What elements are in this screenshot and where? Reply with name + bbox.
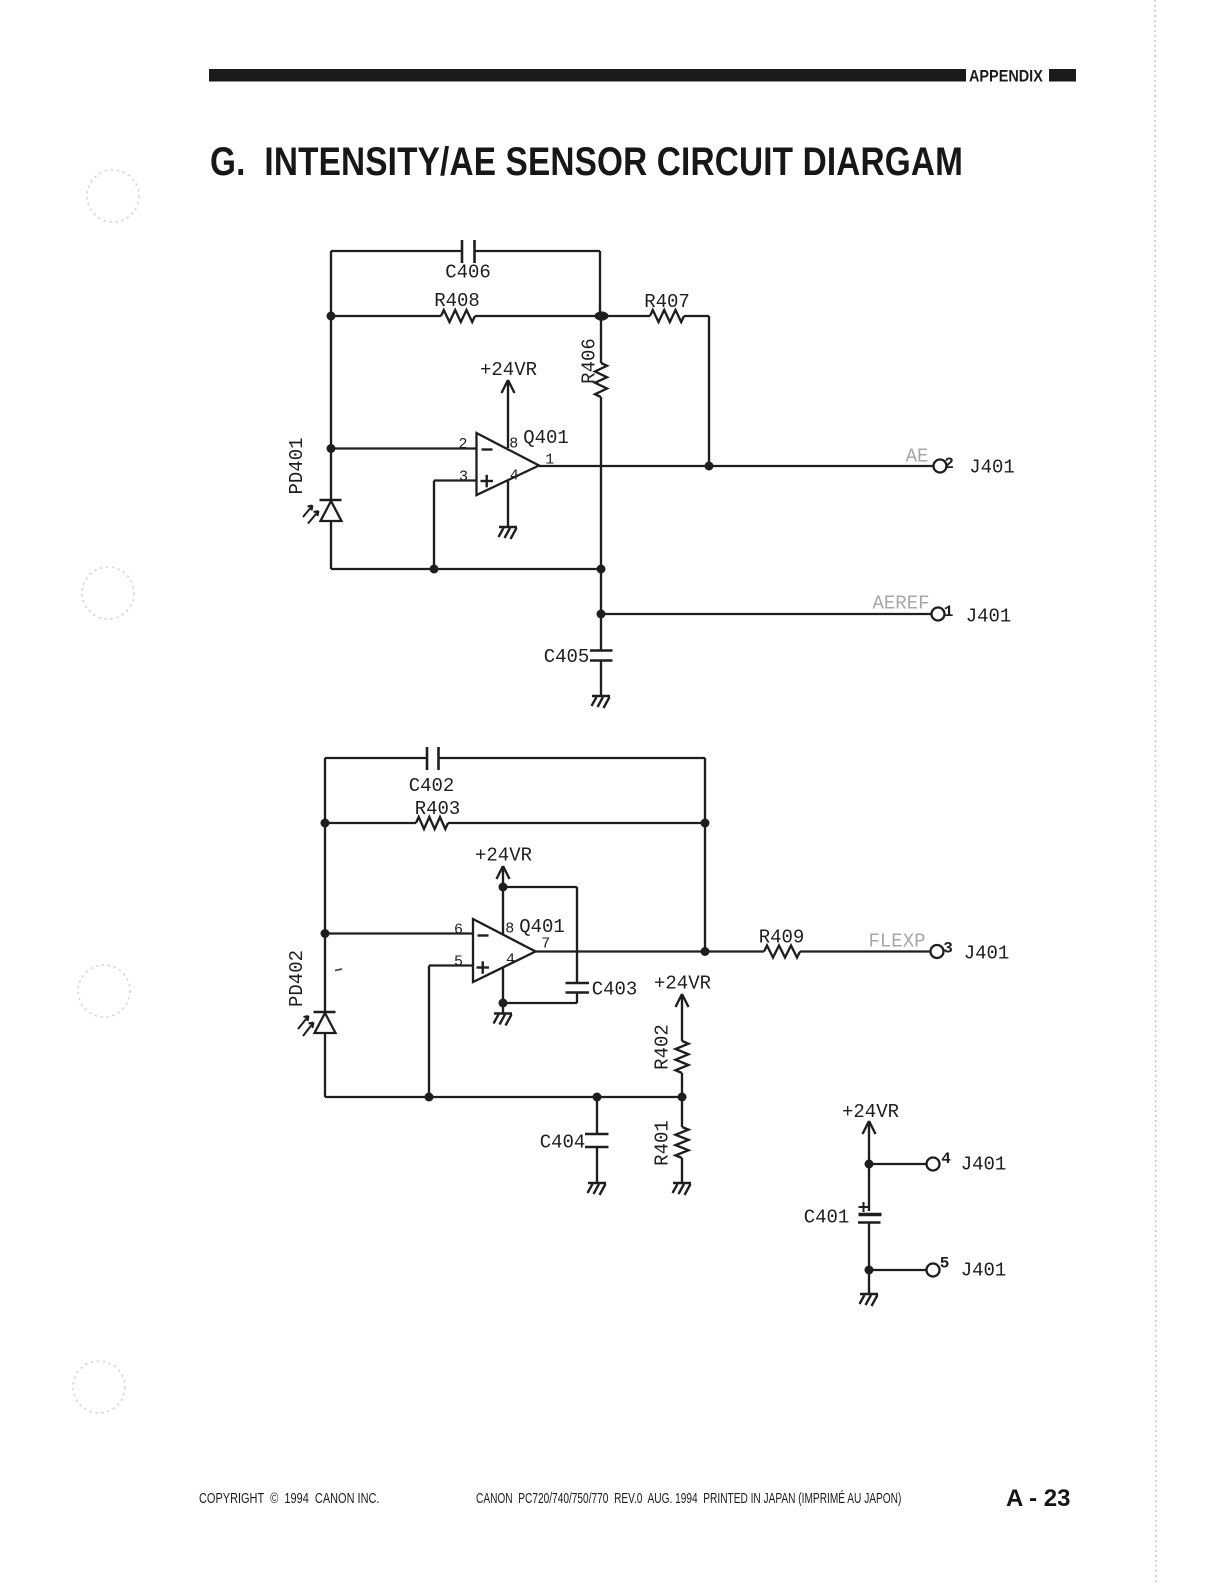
svg-text:C404: C404 xyxy=(540,1132,586,1154)
svg-text:PD402: PD402 xyxy=(286,950,308,1007)
wire U2 output segment xyxy=(536,950,765,952)
resistor R409 xyxy=(764,946,800,958)
svg-text:A - 23: A - 23 xyxy=(1006,1485,1070,1512)
header label APPENDIX xyxy=(969,67,1043,85)
svg-text:J401: J401 xyxy=(969,457,1015,479)
ground R401 xyxy=(673,1183,692,1195)
pin number 8 (U2 supply) xyxy=(505,921,514,938)
svg-text:3: 3 xyxy=(459,469,468,486)
header rule bar xyxy=(209,69,966,82)
wire C401 to pin5 node xyxy=(868,1223,870,1271)
svg-text:R408: R408 xyxy=(434,290,480,312)
label C403 xyxy=(592,979,638,1001)
wire AEREF to terminal xyxy=(601,613,932,615)
power +24VR arrow (U2 pin 8) xyxy=(497,866,510,887)
label R403 xyxy=(415,798,461,820)
svg-text:3: 3 xyxy=(943,940,953,958)
wire R403 left segment xyxy=(325,822,416,824)
ground U2 pin 4 xyxy=(494,1014,513,1026)
wire C403 vertical lower xyxy=(576,993,578,1004)
wire U2 inverting input xyxy=(325,932,473,934)
wire C405 to ground xyxy=(600,661,602,697)
node R403 right junction xyxy=(701,819,710,828)
terminal J401 pin 4 circle xyxy=(927,1158,940,1171)
wire R403 right segment xyxy=(448,822,705,824)
wire U1 inverting input xyxy=(331,447,477,449)
wire C402 right vertical drop xyxy=(704,758,706,823)
svg-text:PD401: PD401 xyxy=(286,437,308,494)
wire R401 to ground xyxy=(681,1158,683,1183)
svg-text:C402: C402 xyxy=(409,775,455,797)
net label AEREF xyxy=(872,593,929,615)
svg-text:2: 2 xyxy=(458,436,467,453)
capacitor C403 xyxy=(566,983,590,993)
pin number 1 (U1 output) xyxy=(545,452,554,469)
wire R407 output drop (right vertical) xyxy=(708,316,710,466)
svg-text:R407: R407 xyxy=(644,291,690,313)
node bottom rail / C404 junction xyxy=(593,1093,602,1102)
footer copyright xyxy=(199,1489,379,1506)
node pin5/bottom rail junction xyxy=(425,1093,434,1102)
wire C406 left feedback segment xyxy=(331,250,461,252)
wire R402 lower segment xyxy=(681,1073,683,1097)
terminal J401 pin 2 circle xyxy=(934,460,947,473)
net label AE xyxy=(906,446,929,468)
svg-text:C405: C405 xyxy=(544,646,590,668)
node R403 left junction xyxy=(321,819,330,828)
terminal J401 pin 5 circle xyxy=(927,1264,940,1277)
node feedback/output junction xyxy=(701,947,710,956)
light arrow 1 into PD401 xyxy=(303,506,313,518)
light arrow 1 into PD402 xyxy=(298,1016,309,1029)
power +24VR arrow (U1 pin 8) xyxy=(502,380,515,448)
svg-text:4: 4 xyxy=(941,1150,951,1168)
wire AEREF tap to C405 xyxy=(600,614,602,650)
svg-text:7: 7 xyxy=(541,936,550,953)
label R401 xyxy=(652,1120,674,1166)
ground C405 xyxy=(592,696,611,708)
svg-text:5: 5 xyxy=(940,1255,950,1273)
wire U1 pin 4 to ground xyxy=(507,481,509,527)
wire C404 to ground xyxy=(596,1147,598,1183)
svg-text:+24VR: +24VR xyxy=(842,1101,899,1123)
pin number 4 (U1 ground) xyxy=(510,468,519,485)
svg-text:4: 4 xyxy=(506,952,515,969)
wire PD401 anode to bottom rail (left vertical lower) xyxy=(330,521,332,569)
node bottom rail / R406 junction xyxy=(597,565,606,574)
capacitor C405 xyxy=(590,651,613,661)
label J401 (pin 1) xyxy=(966,606,1012,628)
label C402 xyxy=(409,775,455,797)
label C406 xyxy=(445,262,491,284)
resistor R408 xyxy=(441,310,475,322)
node pin4 feed junction xyxy=(865,1160,874,1169)
svg-text:J401: J401 xyxy=(961,1260,1007,1282)
svg-text:1: 1 xyxy=(944,603,954,621)
label +24VR (U1 supply) xyxy=(480,359,537,381)
label R407 xyxy=(644,291,690,313)
svg-text:J401: J401 xyxy=(961,1154,1007,1176)
wire R407 right segment xyxy=(684,315,709,317)
svg-text:4: 4 xyxy=(510,468,519,485)
label J401 (pin 2) xyxy=(969,457,1015,479)
pin number 5 (U2 non-inverting) xyxy=(454,954,463,971)
resistor R401 xyxy=(676,1127,689,1158)
wire R406 node down to AEREF tap xyxy=(600,569,602,614)
label PD402 xyxy=(286,950,308,1007)
wire pin5 vertical to bottom rail xyxy=(428,966,430,1098)
wire R408 left segment xyxy=(331,315,441,317)
label +24VR (divider supply) xyxy=(654,973,711,995)
wire pin8 node into op-amp xyxy=(502,887,504,934)
label PD401 xyxy=(286,437,308,494)
capacitor C402 xyxy=(427,747,439,770)
resistor R403 xyxy=(416,817,448,829)
svg-text:FLEXP: FLEXP xyxy=(868,931,925,953)
ground C404 xyxy=(588,1183,607,1195)
svg-text:AEREF: AEREF xyxy=(872,593,929,615)
resistor R407 xyxy=(650,310,684,322)
label Q401 (U2) xyxy=(519,916,565,938)
wire feedback vertical to output xyxy=(704,823,706,952)
wire PD402 anode vertical (left lower) xyxy=(324,1033,326,1097)
pin number 8 (U1 supply) xyxy=(509,436,518,453)
wire C402 left feedback segment xyxy=(325,757,426,759)
capacitor C401 xyxy=(858,1215,882,1223)
node R408/R407/R406 junction xyxy=(595,311,609,320)
svg-text:2: 2 xyxy=(944,455,954,473)
wire pin3 vertical to bottom rail xyxy=(433,481,435,570)
svg-text:J401: J401 xyxy=(964,943,1010,965)
svg-text:+24VR: +24VR xyxy=(480,359,537,381)
terminal J401 pin 3 circle xyxy=(931,945,944,958)
wire PD401 cathode to feedback node (left vertical upper) xyxy=(330,251,332,500)
resistor R402 xyxy=(676,1041,689,1073)
svg-text:5: 5 xyxy=(454,954,463,971)
svg-text:6: 6 xyxy=(454,922,463,939)
label J401 (pin 4) xyxy=(961,1154,1007,1176)
pin number 6 (U2 inverting) xyxy=(454,922,463,939)
node bottom rail / divider junction xyxy=(678,1093,687,1102)
pin number 4 (U2 ground) xyxy=(506,952,515,969)
wire pin4 node to C401 xyxy=(868,1164,870,1211)
header rule end cap xyxy=(1049,69,1076,82)
svg-text:R403: R403 xyxy=(415,798,461,820)
node AEREF tap junction xyxy=(597,610,606,619)
net label FLEXP xyxy=(868,931,925,953)
node inverting input junction (PD402) xyxy=(321,929,330,938)
label +24VR (C401 supply) xyxy=(842,1101,899,1123)
svg-text:AE: AE xyxy=(906,446,929,468)
node R407/output junction xyxy=(705,462,714,471)
capacitor C406 xyxy=(462,240,475,263)
wire C403 bottom horizontal xyxy=(503,1002,577,1004)
svg-text:R409: R409 xyxy=(759,927,805,949)
wire U2 non-inverting input xyxy=(429,964,473,966)
pin number 1 (J401) xyxy=(944,603,954,621)
footer page number A - 23 xyxy=(1006,1485,1070,1512)
op-amp U1 plus sign xyxy=(481,475,494,488)
label R406 xyxy=(579,338,601,384)
svg-text:Q401: Q401 xyxy=(523,427,569,449)
wire to J401 pin 5 terminal xyxy=(869,1269,927,1271)
svg-text:+24VR: +24VR xyxy=(654,973,711,995)
wire C402 right feedback segment xyxy=(439,757,705,759)
pin number 4 (J401) xyxy=(941,1150,951,1168)
op-amp U2 plus sign xyxy=(477,961,490,974)
svg-text:APPENDIX: APPENDIX xyxy=(969,67,1043,85)
label J401 (pin 3) xyxy=(964,943,1010,965)
svg-text:G. INTENSITY/AE SENSOR CIRCUI: G. INTENSITY/AE SENSOR CIRCUIT DIARGAM xyxy=(210,139,963,184)
wire R409 to FLEXP terminal xyxy=(800,950,931,952)
wire to J401 pin 4 terminal xyxy=(869,1163,927,1165)
light arrow 2 into PD402 xyxy=(303,1023,314,1037)
node pin5 feed junction xyxy=(865,1266,874,1275)
svg-text:8: 8 xyxy=(509,436,518,453)
svg-text:+24VR: +24VR xyxy=(475,845,532,867)
svg-text:R402: R402 xyxy=(652,1024,674,1070)
svg-text:R406: R406 xyxy=(579,338,601,384)
label R408 xyxy=(434,290,480,312)
capacitor C401 polarity + xyxy=(859,1202,869,1212)
wire U2 pin 4 down xyxy=(502,967,504,1014)
light arrow 2 into PD401 xyxy=(308,511,319,524)
svg-text:C401: C401 xyxy=(804,1207,850,1229)
pin number 7 (U2 output) xyxy=(541,936,550,953)
svg-text:COPYRIGHT © 1994 CANON INC.: COPYRIGHT © 1994 CANON INC. xyxy=(199,1489,379,1506)
node pin8/C403 junction xyxy=(499,883,508,892)
node pin3/bottom rail junction xyxy=(430,565,439,574)
wire pin8 node to C403 top (horizontal) xyxy=(503,886,577,888)
svg-text:CANON PC720/740/750/770 REV.: CANON PC720/740/750/770 REV.0 AUG. 1994 … xyxy=(476,1489,901,1506)
power +24VR arrow (R402) xyxy=(676,994,689,1041)
label +24VR (U2 supply) xyxy=(475,845,532,867)
node R408 left junction xyxy=(327,312,336,321)
svg-text:C403: C403 xyxy=(592,979,638,1001)
terminal J401 pin 1 circle xyxy=(932,608,945,621)
label J401 (pin 5) xyxy=(961,1260,1007,1282)
photodiode PD402 xyxy=(314,1012,336,1033)
ground C401 xyxy=(860,1294,879,1306)
label R409 xyxy=(759,927,805,949)
wire R408 right segment xyxy=(475,315,600,317)
photodiode PD401 xyxy=(320,500,342,521)
power +24VR arrow (C401) xyxy=(863,1121,876,1164)
wire R407 left segment xyxy=(608,315,650,317)
wire C403 vertical upper xyxy=(576,887,578,983)
wire bottom rail circuit 2 xyxy=(325,1096,682,1098)
pin number 5 (J401) xyxy=(940,1255,950,1273)
svg-text:8: 8 xyxy=(505,921,514,938)
page title xyxy=(210,139,963,184)
wire U1 output to AE terminal xyxy=(539,465,934,467)
label C405 xyxy=(544,646,590,668)
resistor R406 xyxy=(595,363,607,397)
svg-text:J401: J401 xyxy=(966,606,1012,628)
wire C406 right feedback segment xyxy=(475,250,600,252)
pin number 2 (U1 inverting) xyxy=(458,436,467,453)
op-amp U1 minus sign xyxy=(482,448,493,450)
op-amp Q401 (pins 2,3,1) triangle xyxy=(477,433,540,495)
node pin4/C403 bottom junction xyxy=(499,999,508,1008)
wire C404 vertical upper xyxy=(596,1097,598,1134)
wire U1 non-inverting input xyxy=(434,479,477,481)
op-amp Q401 (pins 6,5,7) triangle xyxy=(473,919,536,982)
ground U1 pin 4 xyxy=(499,527,518,539)
label C401 xyxy=(804,1207,850,1229)
pin number 3 (J401) xyxy=(943,940,953,958)
wire pin5 node to ground xyxy=(868,1270,870,1294)
svg-text:R401: R401 xyxy=(652,1120,674,1166)
footer imprint xyxy=(476,1489,901,1506)
pin number 3 (U1 non-inverting) xyxy=(459,469,468,486)
pin number 2 (J401) xyxy=(944,455,954,473)
wire bottom rail (PD401 anode / pin3 / R406) xyxy=(331,568,601,570)
wire R406 lower segment to bottom rail xyxy=(600,397,602,569)
wire R406 upper segment xyxy=(600,316,602,363)
label Q401 (U1) xyxy=(523,427,569,449)
label R402 xyxy=(652,1024,674,1070)
node inverting input junction (PD401) xyxy=(327,444,336,453)
op-amp U2 minus sign xyxy=(478,934,489,936)
wire R401 upper segment xyxy=(681,1097,683,1127)
wire C406 right vertical drop xyxy=(599,251,601,316)
label C404 xyxy=(540,1132,586,1154)
capacitor C404 xyxy=(585,1134,609,1147)
stray scan mark near PD402 xyxy=(335,969,342,971)
wire PD402 cathode vertical (left upper) xyxy=(324,758,326,1012)
svg-text:C406: C406 xyxy=(445,262,491,284)
